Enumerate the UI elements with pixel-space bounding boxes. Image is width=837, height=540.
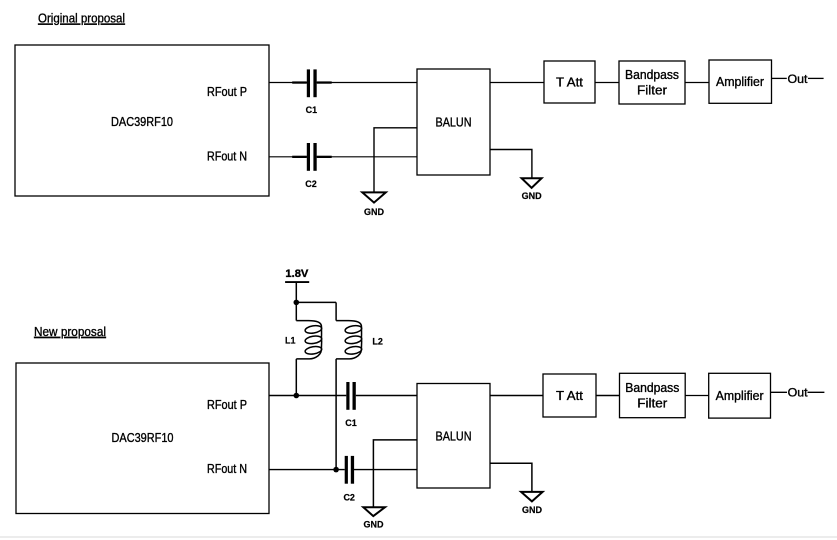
ground GND4 (bottom) [521,492,543,515]
svg-text:L1: L1 [285,336,296,346]
svg-text:RFout P: RFout P [207,85,247,99]
wire balun secondary to ground (bottom) [490,463,532,492]
svg-text:BALUN: BALUN [436,115,472,130]
wire RFout P to C1 (top) [269,82,307,84]
wire amplifier to Out (bottom) [771,391,788,393]
capacitor C2 (top) [292,143,332,189]
wire balun to T Att (top) [490,82,544,84]
capacitor C1 (top) [292,69,332,115]
amplifier (top) [709,60,772,103]
svg-text:1.8V: 1.8V [285,268,309,280]
wire L1 to RFout P line [295,359,297,396]
wire C1 to balun (bottom) [356,395,417,397]
svg-text:T Att: T Att [556,389,584,403]
inductor L2 [336,321,383,359]
svg-text:C2: C2 [343,493,355,503]
svg-text:L2: L2 [372,337,383,347]
wire balun to T Att (bottom) [490,395,543,397]
wire balun center tap to ground (top) [374,128,417,193]
inductor L1 [285,321,322,359]
footer divider line [0,536,837,538]
wire junction to L2 top [296,301,336,303]
wire C2 to balun (bottom) [354,469,417,471]
svg-text:GND: GND [364,207,385,217]
svg-text:BALUN: BALUN [436,429,472,444]
wire bandpass to amplifier (top) [685,82,709,84]
IC DAC39RF10 (bottom) [16,363,269,514]
wire after Out (top) [808,77,824,79]
amplifier (bottom) [709,373,771,418]
svg-text:GND: GND [364,519,385,529]
bandpass filter (top) [619,61,685,104]
junction node supply split [294,300,300,306]
svg-text:Amplifier: Amplifier [716,75,764,89]
ground GND3 (bottom) [363,507,385,529]
wire bandpass to amplifier (bottom) [685,395,709,397]
wire balun center tap to ground (bottom) [373,440,417,507]
svg-text:Original proposal: Original proposal [38,11,125,26]
wire balun secondary to ground (top) [490,150,532,179]
attenuator T Att (bottom) [543,374,596,417]
ground GND1 (top) [362,192,386,217]
svg-text:DAC39RF10: DAC39RF10 [111,114,173,129]
svg-text:RFout N: RFout N [207,150,247,164]
capacitor C1 (bottom) [345,382,357,428]
wire T Att to bandpass (top) [595,82,619,84]
svg-text:GND: GND [522,505,543,515]
wire L2 feed down [335,302,337,320]
svg-text:T Att: T Att [556,76,584,90]
IC DAC39RF10 (top) [15,45,269,196]
wire amplifier to Out (top) [772,77,787,79]
wire supply bar to junction [295,282,297,302]
wire RFout N to C2 (bottom) [269,469,345,471]
svg-text:C1: C1 [306,105,318,115]
svg-text:GND: GND [522,191,543,201]
wire RFout N to C2 (top) [269,156,307,158]
svg-text:RFout P: RFout P [207,398,247,412]
junction node L2/N [333,467,339,473]
svg-text:Out: Out [788,386,809,400]
balun U1 (top) [417,69,490,175]
title: Original proposal [38,11,125,26]
bandpass filter (bottom) [620,373,686,417]
junction node L1/P [294,393,300,399]
wire T Att to bandpass (bottom) [596,395,620,397]
svg-text:C1: C1 [345,418,357,428]
supply rail bar [285,281,309,283]
svg-text:Out: Out [788,72,809,86]
svg-text:Amplifier: Amplifier [716,389,764,403]
ground GND2 (top) [522,178,543,201]
svg-text:DAC39RF10: DAC39RF10 [112,430,174,445]
svg-text:Filter: Filter [637,83,667,97]
balun U2 (bottom) [417,384,490,489]
wire L2 down to RFout N line [335,359,337,470]
wire RFout P to C1 (bottom) [269,395,346,397]
svg-text:C2: C2 [305,179,317,189]
capacitor C2 (bottom) [343,456,355,503]
wire junction down to L1 [295,302,297,320]
svg-text:Bandpass: Bandpass [625,68,679,82]
wire after Out (bottom) [808,391,825,393]
wire C2 to balun (top) [317,156,417,158]
svg-text:RFout N: RFout N [207,462,247,476]
svg-text:New proposal: New proposal [34,324,106,339]
svg-text:Filter: Filter [637,397,667,411]
svg-text:Bandpass: Bandpass [625,381,679,395]
title: New proposal [34,324,106,339]
attenuator T Att (top) [544,61,595,103]
wire C1 to balun (top) [317,82,417,84]
